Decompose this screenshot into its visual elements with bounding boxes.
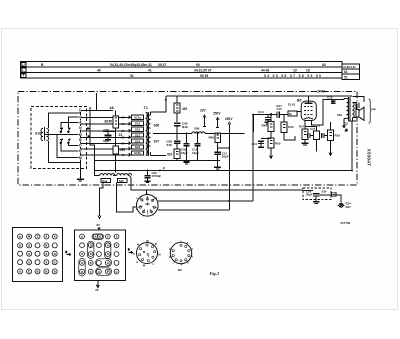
- svg-text:84: 84: [322, 63, 326, 67]
- svg-text:a: a: [99, 235, 101, 239]
- svg-text:65: 65: [122, 153, 126, 157]
- svg-text:Q: Q: [147, 253, 150, 257]
- svg-text:41,8/41,61: 41,8/41,61: [343, 65, 356, 69]
- svg-text:M: M: [79, 133, 82, 137]
- svg-text:R66: R66: [262, 124, 268, 128]
- anode wire to T2: [312, 100, 345, 125]
- svg-text:S16: S16: [135, 145, 141, 149]
- vertical feeds: [218, 115, 253, 210]
- svg-text:C17: C17: [310, 127, 316, 131]
- capacitor C08: [174, 141, 181, 149]
- tube internals: [297, 96, 313, 129]
- box2 right arrow 6: [128, 248, 133, 254]
- resistor R19: [328, 122, 334, 149]
- capacitor C11: [214, 152, 220, 167]
- wire rectifier top: [146, 190, 148, 195]
- svg-text:4V: 4V: [95, 288, 99, 292]
- heater dropper coil S04b: [117, 174, 132, 176]
- capacitor C06: [174, 123, 181, 140]
- svg-text:8V: 8V: [97, 223, 101, 227]
- svg-text:S14: S14: [135, 139, 141, 143]
- svg-text:4700pF: 4700pF: [152, 174, 162, 178]
- svg-text:R19: R19: [335, 134, 341, 138]
- ground under bus: [77, 179, 84, 181]
- svg-text:n: n: [107, 243, 109, 247]
- svg-text:16μF: 16μF: [192, 151, 199, 155]
- junction dots: [147, 114, 353, 202]
- box1 pin circles: [18, 234, 58, 274]
- svg-text:R15: R15: [288, 125, 294, 129]
- svg-text:17: 17: [122, 115, 126, 119]
- ground for C05: [105, 138, 111, 141]
- socket diagram 2: [170, 242, 191, 263]
- speaker: [352, 103, 364, 121]
- T2 secondary: [352, 103, 354, 118]
- svg-text:M: M: [79, 156, 82, 160]
- svg-text:S08: S08: [194, 127, 200, 131]
- svg-text:617738: 617738: [341, 221, 351, 225]
- svg-text:n: n: [90, 252, 92, 256]
- svg-text:u: u: [107, 261, 109, 265]
- box1 pin glyphs: [19, 235, 57, 274]
- T2 core: [349, 97, 351, 121]
- svg-text:e: e: [54, 260, 56, 264]
- wire R66/R05 join: [261, 114, 295, 140]
- cathode resistor R18: [302, 126, 308, 142]
- resistor R52: [174, 96, 180, 122]
- capacitor C10: [194, 134, 200, 161]
- T1 tap boxes: [132, 115, 144, 155]
- svg-text:n: n: [81, 252, 83, 256]
- T1 core: [147, 112, 149, 156]
- svg-text:C18: C18: [327, 96, 333, 100]
- B6 wires: [158, 201, 253, 210]
- svg-text:S4b: S4b: [119, 179, 124, 183]
- arrow between boxes: [66, 250, 71, 256]
- svg-text:26: 26: [122, 135, 126, 139]
- svg-text:B49: B49: [182, 125, 188, 129]
- svg-text:X530AT: X530AT: [367, 149, 372, 166]
- C30 cap to ground: [144, 171, 150, 183]
- svg-text:EL41: EL41: [288, 103, 296, 107]
- cap between R17/C17: [308, 133, 328, 138]
- svg-text:T1: T1: [144, 106, 148, 110]
- small box 21: [332, 192, 337, 196]
- B+ row y133 to choke: [160, 133, 186, 135]
- node bus letters column: [79, 108, 81, 179]
- svg-text:g: g: [90, 243, 92, 247]
- scale tick text row1: [41, 63, 356, 79]
- svg-text:S12: S12: [135, 133, 141, 137]
- grid resistor R66: [268, 117, 274, 138]
- svg-text:648: 648: [167, 143, 172, 147]
- svg-text:B5: B5: [297, 99, 301, 103]
- ground bus under caps: [184, 162, 190, 164]
- wire T1 secondary to B+ rail: [151, 96, 166, 156]
- voltage arrow 260V: [228, 122, 231, 125]
- svg-text:26: 26: [122, 147, 126, 151]
- capacitor C09: [183, 134, 189, 161]
- svg-text:41: 41: [148, 68, 152, 72]
- choke S08: [186, 132, 245, 134]
- svg-text:B6: B6: [178, 268, 182, 272]
- svg-text:26: 26: [122, 122, 126, 126]
- svg-text:e: e: [19, 270, 21, 274]
- voltage arrow 250V: [216, 117, 219, 127]
- svg-text:e: e: [81, 235, 83, 239]
- box2 pin circles: [80, 234, 119, 274]
- svg-text:a: a: [107, 252, 109, 256]
- svg-text:23V: 23V: [200, 109, 207, 113]
- switch unit wires: [45, 113, 81, 163]
- svg-text:S2a: S2a: [337, 113, 343, 117]
- svg-text:S06: S06: [154, 124, 160, 128]
- svg-text:R17: R17: [299, 125, 305, 129]
- svg-text:a: a: [95, 235, 97, 239]
- svg-text:a: a: [81, 270, 83, 274]
- svg-text:51: 51: [344, 75, 348, 79]
- ground C11: [214, 167, 221, 169]
- svg-text:A: A: [136, 260, 138, 264]
- svg-text:1k: 1k: [289, 112, 293, 116]
- svg-text:C: C: [28, 270, 31, 274]
- svg-text:R60: R60: [209, 136, 215, 140]
- output transformer T2 primary: [344, 99, 349, 119]
- wire y163: [90, 93, 220, 173]
- pilot lamp E24/E27: [338, 203, 345, 207]
- bracket and Ha. label: [369, 99, 372, 123]
- output tube B5 envelope: [301, 101, 316, 120]
- svg-text:u: u: [116, 270, 118, 274]
- svg-text:200V: 200V: [317, 90, 326, 94]
- T1 secondary winding: [148, 112, 150, 156]
- socket diagram 1: [137, 243, 158, 264]
- svg-text:25: 25: [122, 141, 126, 145]
- resistor S11: [113, 135, 118, 173]
- svg-text:x: x: [107, 235, 109, 239]
- svg-text:C13: C13: [258, 110, 264, 114]
- svg-text:90: 90: [196, 63, 200, 67]
- svg-text:e: e: [19, 235, 21, 239]
- svg-text:20μF: 20μF: [222, 155, 229, 159]
- coil wires: [95, 171, 303, 219]
- svg-text:49: 49: [97, 68, 101, 72]
- dial scale band: [20, 62, 359, 80]
- bus rows to T1 taps: [80, 110, 126, 155]
- box2 pin glyphs: [81, 235, 118, 274]
- fuse Z1: [113, 110, 118, 135]
- svg-text:B150: B150: [105, 120, 113, 124]
- svg-text:19: 19: [293, 68, 297, 72]
- svg-text:2: 2: [36, 235, 38, 239]
- svg-text:u: u: [98, 270, 100, 274]
- svg-text:S12b: S12b: [134, 151, 141, 155]
- svg-text:x: x: [116, 243, 118, 247]
- svg-text:a: a: [90, 261, 92, 265]
- svg-text:C14: C14: [252, 142, 258, 146]
- voltage arrow 23V: [203, 115, 206, 127]
- resistor R10: [174, 149, 180, 160]
- svg-text:S07: S07: [154, 140, 160, 144]
- svg-text:E27: E27: [346, 205, 352, 209]
- cathode capacitor C17: [305, 127, 319, 142]
- switch contact arrows: [60, 128, 70, 144]
- svg-text:34,31,85 97: 34,31,85 97: [194, 68, 212, 72]
- svg-text:25: 25: [122, 129, 126, 133]
- svg-text:s: s: [116, 235, 118, 239]
- T1 tap arrows and numbers: [126, 116, 131, 157]
- resistor R05: [268, 138, 274, 153]
- svg-text:S12a: S12a: [134, 116, 141, 120]
- B+ rail 200V: [166, 95, 352, 97]
- svg-text:Fig.3: Fig.3: [210, 271, 220, 276]
- dashed box C20: [303, 188, 331, 200]
- svg-text:250V: 250V: [213, 112, 221, 116]
- svg-text:A: A: [28, 235, 31, 239]
- svg-text:e: e: [28, 260, 30, 264]
- svg-text:S4a: S4a: [102, 179, 107, 183]
- capacitor C05: [103, 132, 116, 140]
- down arrow under R05: [270, 153, 273, 159]
- switch unit dashed box: [31, 107, 87, 169]
- svg-text:D: D: [155, 242, 157, 246]
- svg-text:S30: S30: [322, 190, 327, 194]
- grounds under cathode: [302, 140, 317, 152]
- resistor R15: [281, 115, 287, 140]
- down arrow under R19: [329, 149, 332, 155]
- svg-text:N: N: [137, 243, 139, 247]
- svg-text:C80: C80: [104, 128, 110, 132]
- svg-text:Ha.: Ha.: [372, 107, 377, 111]
- svg-text:C: C: [133, 252, 135, 256]
- coupling capacitor C15: [277, 112, 288, 119]
- svg-text:a: a: [81, 261, 83, 265]
- node dot: [165, 99, 167, 101]
- capacitor C14: [258, 141, 264, 147]
- svg-text:51: 51: [130, 74, 134, 78]
- grid stopper box: [288, 111, 297, 116]
- capacitor C18 across primary: [331, 100, 335, 104]
- speaker top wire: [353, 97, 365, 102]
- signal wire into grid: [253, 115, 276, 133]
- rectifier tube B6 socket view: [137, 195, 159, 217]
- svg-text:S15: S15: [135, 127, 141, 131]
- svg-text:16: 16: [306, 68, 310, 72]
- B6 internal pins: [138, 196, 157, 215]
- C20 electrolytic: [313, 194, 319, 204]
- T1 primary winding: [146, 112, 148, 155]
- svg-text:20μF: 20μF: [306, 193, 313, 197]
- connector box 1: [13, 228, 63, 282]
- antenna transformer S10: [41, 127, 49, 141]
- wires into dashed box: [303, 191, 341, 203]
- box2 bottom arrow 4V: [96, 281, 99, 288]
- coil tap boxes: [101, 179, 127, 183]
- svg-text:910: 910: [167, 152, 173, 156]
- capacitor C13 to ground: [265, 115, 271, 125]
- svg-text:50 53: 50 53: [200, 74, 208, 78]
- connector box 2: [75, 230, 126, 280]
- T2 bottom to rail: [343, 118, 356, 132]
- svg-text:A8: A8: [110, 106, 114, 110]
- svg-text:T2: T2: [344, 122, 348, 126]
- svg-text:e: e: [45, 252, 47, 256]
- svg-text:16μF: 16μF: [181, 151, 188, 155]
- svg-text:S10: S10: [35, 132, 41, 136]
- svg-text:R05: R05: [275, 142, 281, 146]
- svg-text:44 46: 44 46: [261, 68, 269, 72]
- svg-text:452: 452: [182, 107, 188, 111]
- resistor R02: [215, 133, 221, 152]
- long wire y170.5: [95, 121, 352, 171]
- switch contacts at bus right: [87, 127, 90, 137]
- heater dropper coil S04a: [100, 174, 115, 176]
- svg-text:54,51,49,47m45g43,45m,41: 54,51,49,47m45g43,45m,41: [110, 63, 152, 67]
- svg-text:x: x: [90, 270, 92, 274]
- box2 pill outlines: [79, 234, 112, 276]
- main chassis box (dash-dot): [18, 92, 357, 186]
- svg-text:S13: S13: [135, 122, 141, 126]
- svg-text:B47: B47: [277, 104, 283, 108]
- svg-text:260V: 260V: [225, 117, 233, 121]
- svg-text:61: 61: [344, 70, 348, 74]
- svg-text:39,37: 39,37: [158, 63, 166, 67]
